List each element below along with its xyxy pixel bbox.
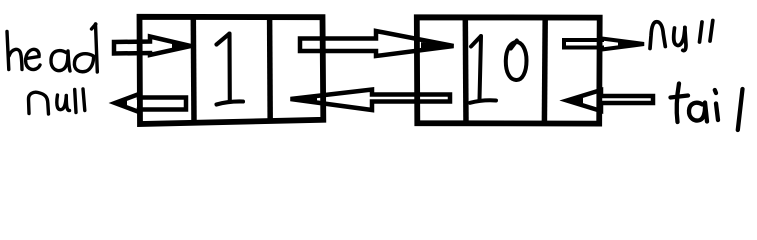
node N2 divider 1 xyxy=(463,18,469,124)
arrow N1.prev->null xyxy=(110,94,187,112)
node N1 box xyxy=(140,17,324,124)
arrow N1.next->N2 xyxy=(300,31,454,56)
node N2 divider 2 xyxy=(542,18,548,124)
label "tail" xyxy=(671,84,743,131)
label "head" xyxy=(7,24,97,72)
value "1" in N1 xyxy=(217,34,244,105)
arrow tail->N2 xyxy=(560,90,653,111)
label "null" (left) xyxy=(29,89,85,114)
node N1 divider 2 xyxy=(267,17,273,122)
arrow N2.prev->N1 xyxy=(291,90,451,111)
node N2 box xyxy=(417,17,600,123)
label "null" (right) xyxy=(650,21,713,51)
arrow N2.next->null xyxy=(564,39,645,50)
value "10" in N2 xyxy=(470,36,527,103)
node N1 divider 1 xyxy=(191,17,197,121)
arrow head->N1 xyxy=(114,37,191,56)
